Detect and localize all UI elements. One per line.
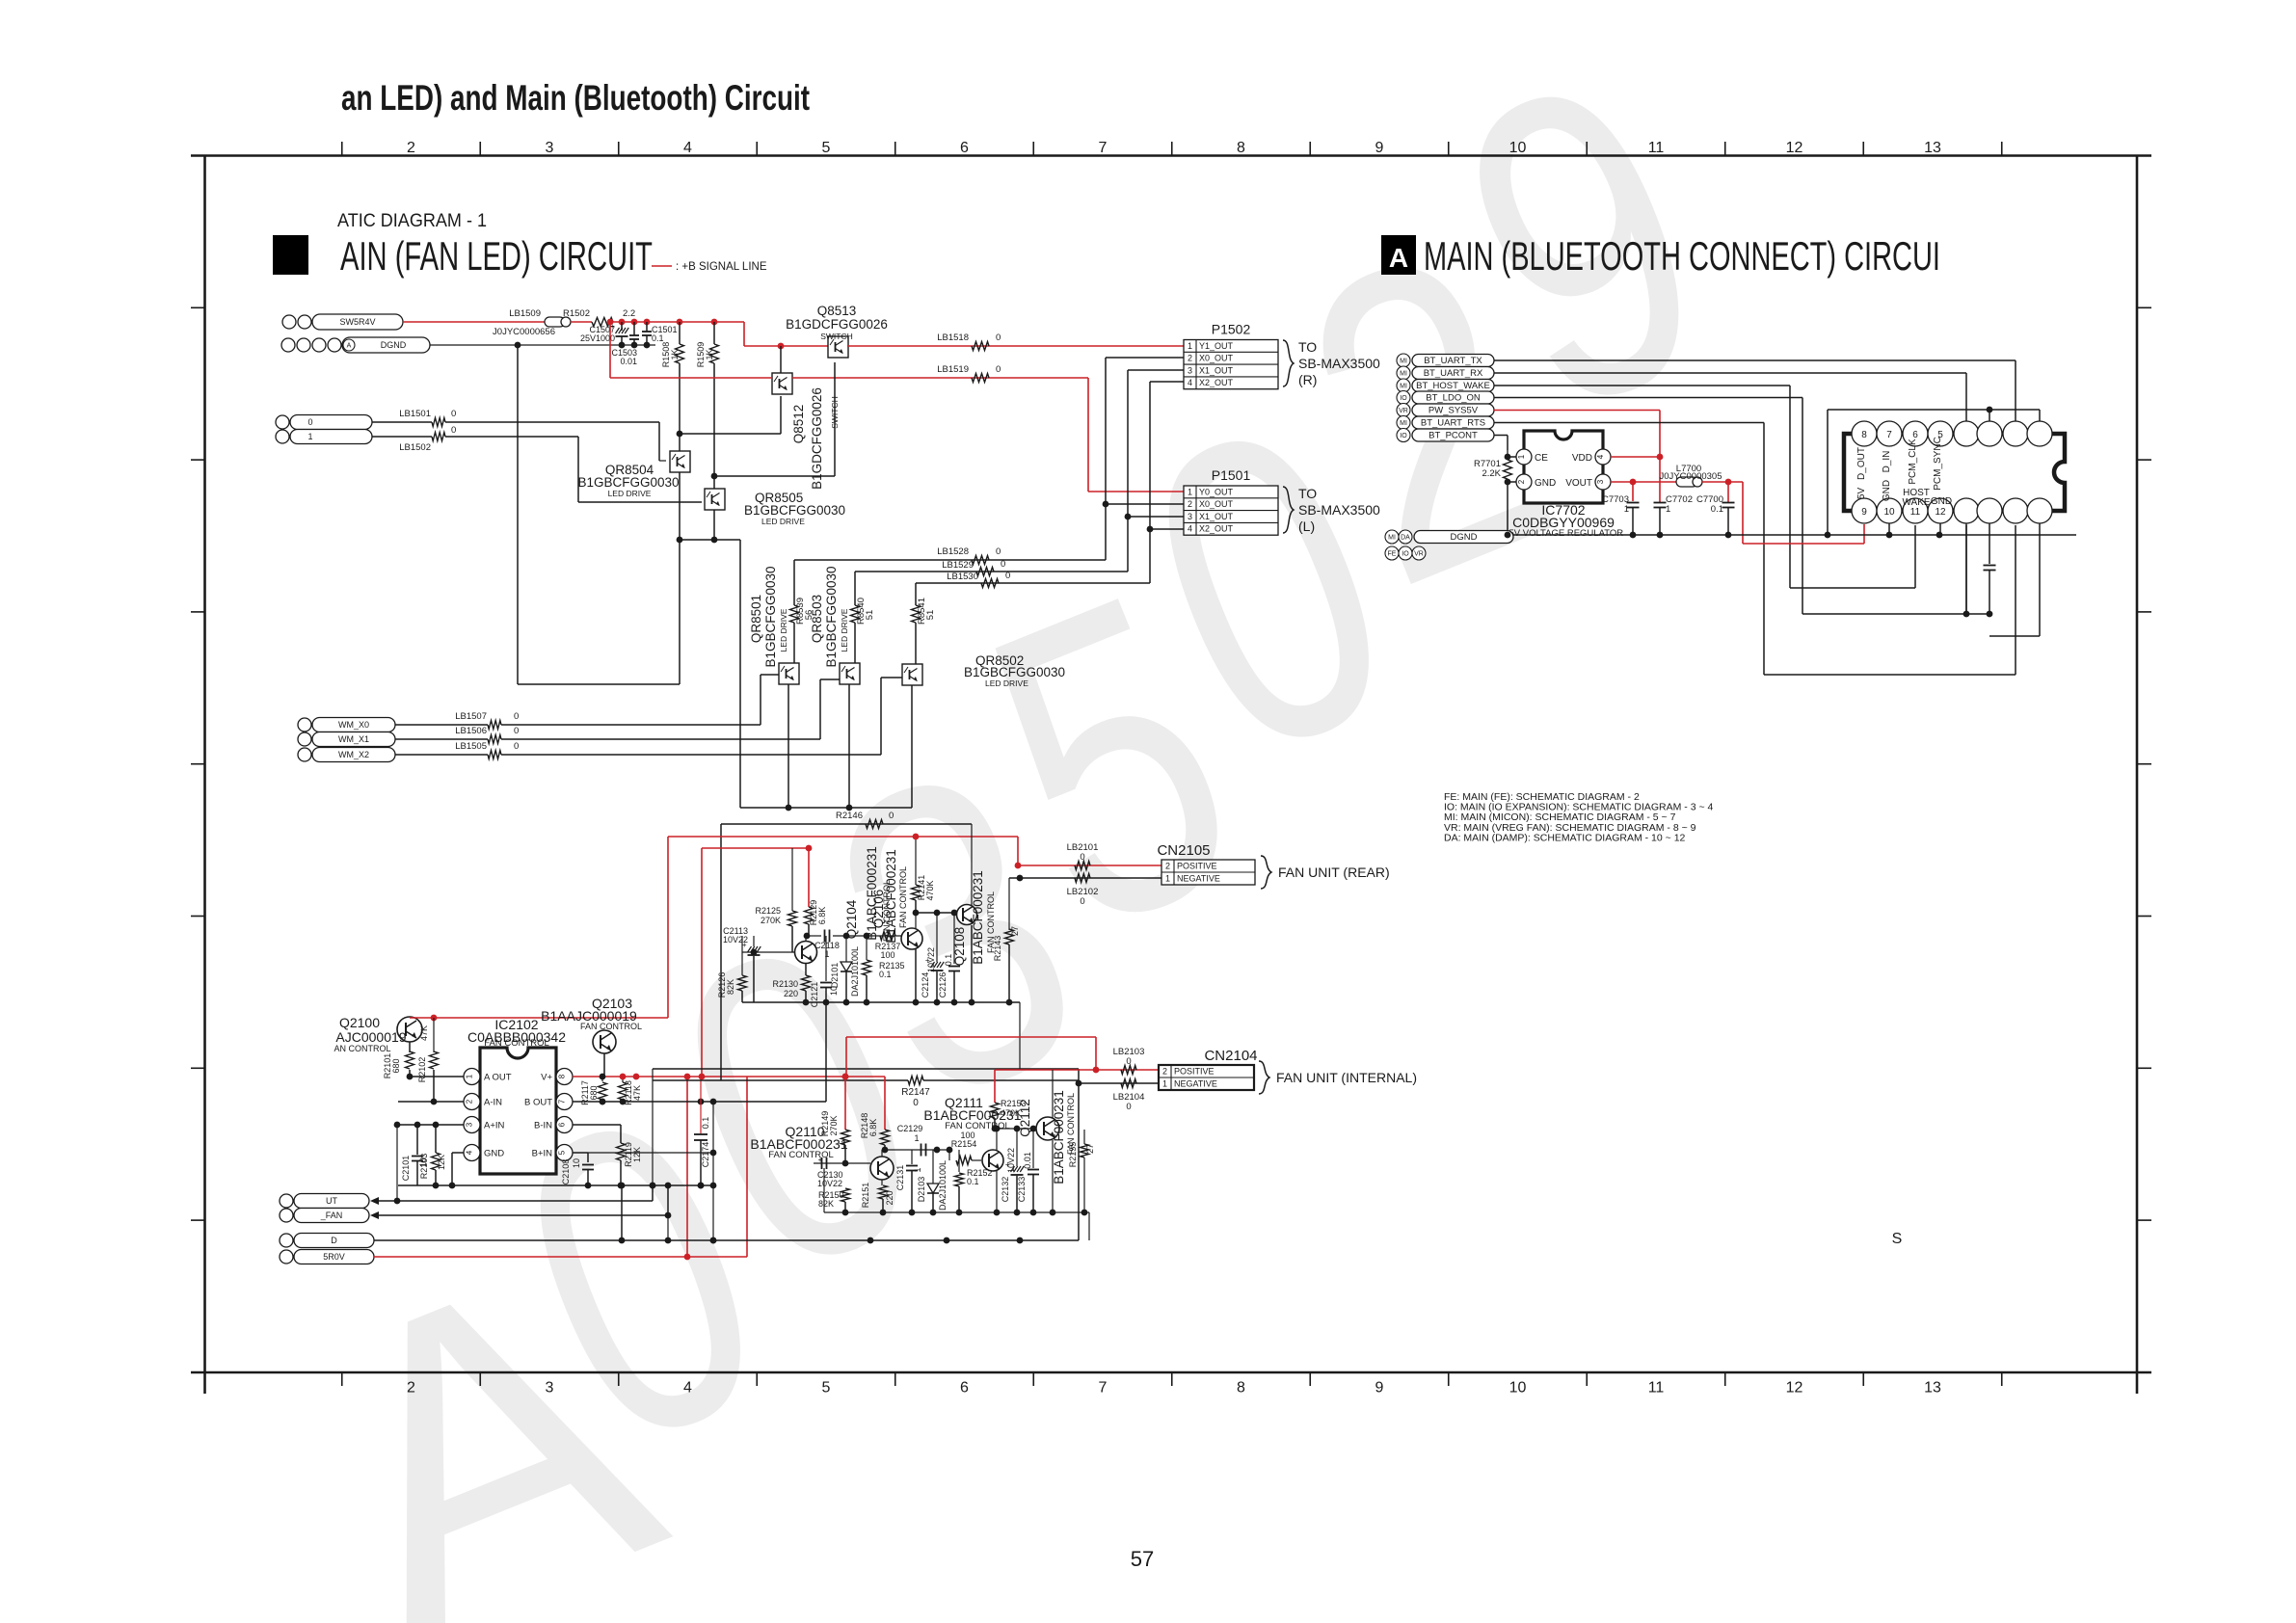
svg-text:Q2108: Q2108 [952,927,967,967]
transistor Q2110 fan control [870,1157,894,1180]
svg-text:57: 57 [1131,1547,1154,1571]
svg-text:1: 1 [307,432,312,441]
svg-text:R2155: R2155 [1068,1142,1078,1168]
wire QR8502 emitter riser [911,685,913,808]
svg-text:13: 13 [1924,1380,1941,1397]
resistor LB2103 0 [1121,1066,1136,1075]
resistor R2146 0 [866,820,883,829]
svg-text:12K: 12K [632,1147,642,1162]
svg-text:3: 3 [546,140,554,156]
svg-text:R2125: R2125 [755,906,781,916]
wire line 0 to QR8504 base [445,421,659,423]
capacitor C2133 0.01 [1032,1129,1034,1168]
svg-text:3: 3 [546,1380,554,1397]
svg-text:1K: 1K [705,349,714,359]
capacitor C2129 1 [921,1144,922,1157]
svg-text:C2174: C2174 [701,1142,710,1168]
svg-text:0: 0 [889,811,894,821]
connector pill D [280,1234,293,1247]
svg-text:C2101: C2101 [401,1156,411,1182]
transistor Q2103 fan control [593,1030,616,1053]
svg-text:3: 3 [1188,512,1192,521]
svg-text:1: 1 [1188,341,1192,351]
svg-text:2: 2 [1188,354,1192,363]
capacitor C1507 25V1000 [616,335,628,337]
red to CN2105 [1018,865,1161,866]
svg-text:10: 10 [1883,507,1895,518]
svg-text:A+IN: A+IN [484,1121,505,1131]
wire to Q2110 block [1019,1002,1021,1069]
transistor Q2111 fan control [982,1150,1003,1171]
svg-text:POSITIVE: POSITIVE [1177,862,1217,871]
red drop to 5R0V rail [686,1077,688,1257]
svg-text:WAKE: WAKE [1902,497,1930,508]
wire row LB1530 [916,582,1150,584]
svg-text:R2143: R2143 [993,936,1002,962]
svg-text:11: 11 [1648,140,1665,156]
svg-text:0: 0 [307,417,312,427]
svg-text:9: 9 [1861,507,1867,518]
svg-text:P1501: P1501 [1212,467,1251,483]
svg-text:4: 4 [1188,524,1192,534]
svg-text:MI: MI [1400,359,1407,365]
svg-text:2: 2 [466,1099,474,1104]
svg-text:AIN (FAN LED) CIRCUIT: AIN (FAN LED) CIRCUIT [340,233,653,279]
svg-text:X1_OUT: X1_OUT [1199,512,1234,521]
svg-text:0.1: 0.1 [879,970,892,979]
resistor R2150 82K [841,1188,850,1202]
svg-text:NEGATIVE: NEGATIVE [1177,874,1220,884]
wire CN2105 negative [1009,877,1161,879]
wire Q2111 collector [996,1129,998,1150]
capacitor C2121 10 [825,936,827,981]
svg-text:1: 1 [913,1167,922,1172]
svg-text:B1GDCFGG0026: B1GDCFGG0026 [786,317,888,332]
wire Q8512 output [780,396,782,434]
resistor LB1501 0 [372,421,432,423]
wire Q2106 collector [915,913,917,928]
wire Y0 red to P1501 [792,377,1088,379]
svg-text:GND: GND [484,1149,504,1159]
svg-text:1: 1 [1624,504,1629,515]
svg-text:B1GBCFGG0030: B1GBCFGG0030 [964,665,1065,679]
wires IC2102 left pins [410,1076,464,1078]
connector pill _FAN [280,1209,293,1222]
svg-text:6: 6 [558,1122,567,1127]
wire to QR8502 base [880,678,882,755]
red feed Q2110 block R2149 [844,1077,846,1130]
svg-text:FAN CONTROL: FAN CONTROL [484,1038,549,1049]
svg-text:VOUT: VOUT [1565,478,1592,489]
wire BT_UART_TX run [1494,359,2016,361]
wire Q2110 emitter resistor R2151 220 [881,1180,883,1185]
svg-text:SB-MAX3500: SB-MAX3500 [1298,502,1380,518]
svg-text:B1GBCFGG0030: B1GBCFGG0030 [824,566,839,667]
capacitor C1503 0.01 [629,334,639,336]
svg-text:270K: 270K [761,916,781,925]
svg-text:0: 0 [451,409,456,419]
svg-text:0.01: 0.01 [1023,1152,1032,1169]
resistor LB2101 0 [1075,862,1090,870]
transistor QR8505 LED drive [705,489,725,510]
svg-text:6: 6 [960,140,969,156]
resistor LB1529 0 [976,568,994,576]
wire QR8505 emitter [713,510,715,540]
svg-text:1: 1 [1165,874,1170,884]
wire Q2112 emitter [1052,1140,1054,1212]
capacitor C2130 10V22 [814,1162,870,1164]
wire Q2104 collector [805,936,807,942]
resistor LB1505 0 [395,754,488,756]
connector pill BT_LDO_ON [1397,391,1410,405]
svg-text:0: 0 [1005,571,1010,581]
svg-text:LED DRIVE: LED DRIVE [608,489,652,498]
red feed rail upper [668,836,1018,838]
transistor QR8502 LED drive [902,664,922,685]
svg-text:PW_SYS5V: PW_SYS5V [1428,406,1479,416]
wire B+IN row extension [588,1152,713,1154]
svg-text:DA: DA [1401,535,1410,542]
wire Q2110 collector [881,1150,883,1157]
svg-text:(L): (L) [1298,519,1315,534]
svg-text:MI: MI [1400,420,1407,427]
ferrite bead LB1509 [545,317,565,327]
wire 5R0V red rail [374,1256,747,1258]
svg-text:MI: MI [1400,371,1407,378]
svg-text:X0_OUT: X0_OUT [1199,354,1234,363]
inductor L7700 [1676,477,1697,487]
red feed R2148 [884,1077,886,1130]
svg-text:QR8501: QR8501 [749,595,763,643]
svg-text:Q2112: Q2112 [1018,1099,1032,1137]
svg-text:0.1: 0.1 [1711,504,1723,515]
svg-text:Y1_OUT: Y1_OUT [1199,341,1234,351]
connector pill BT_PCONT [1397,429,1410,442]
wire riser X2 [1149,382,1151,583]
svg-text:FAN CONTROL: FAN CONTROL [768,1150,834,1160]
resistor R2101 680 [409,1042,411,1052]
resistor R2141 470K [915,837,917,885]
resistor R2102 47K [433,1018,435,1052]
wire Q2103 emitter to V+ [603,1053,605,1077]
resistor R2152 0.1 [958,1150,960,1172]
transistor Q8512 switch [772,373,792,394]
svg-text:B-IN: B-IN [534,1121,552,1131]
svg-text:BT_UART_RTS: BT_UART_RTS [1421,418,1485,429]
resistor R7701 2.2K [1505,454,1511,461]
svg-text:12: 12 [1935,507,1946,518]
svg-text:R1502: R1502 [563,308,590,319]
wire BT_UART_RTS run [1494,422,1764,424]
svg-text:100: 100 [960,1131,974,1140]
svg-text:IO: IO [1400,433,1407,439]
svg-text:R2154: R2154 [951,1139,977,1149]
svg-text:0: 0 [996,333,1001,343]
svg-text:Y0_OUT: Y0_OUT [1199,487,1234,496]
svg-text:1: 1 [914,1133,919,1143]
svg-text:C2124: C2124 [921,972,930,998]
svg-text:270K: 270K [829,1115,839,1135]
wire Q2111 emitter [996,1171,998,1212]
svg-text:TO: TO [1298,486,1317,501]
svg-text:4: 4 [1596,454,1605,459]
svg-text:0.1: 0.1 [652,333,664,343]
svg-text:27: 27 [1010,926,1020,936]
wire BT_HOST_WAKE run [1494,385,1790,386]
svg-text:0: 0 [1126,1056,1131,1067]
svg-text:J0JYC0000305: J0JYC0000305 [1660,471,1722,482]
svg-text:0: 0 [1080,896,1084,907]
svg-text:B1ABCF000231: B1ABCF000231 [884,849,898,944]
resistor R2155 27 [1081,1144,1089,1157]
svg-text:6: 6 [960,1380,969,1397]
wire VOUT red [1611,481,1633,483]
resistor LB1507 0 [395,724,488,726]
wire +B bus [613,321,744,323]
svg-text:13: 13 [1924,140,1941,156]
capacitor C2174 0.1 [700,1077,702,1133]
wire DGND down-run [517,345,519,684]
capacitor C2108 10 [573,1152,588,1154]
svg-text:A OUT: A OUT [484,1073,512,1083]
svg-text:47K: 47K [632,1085,642,1101]
svg-text:IO: IO [1400,395,1407,402]
resistor LB1518 0 [972,342,989,351]
resistor R2117 680 [601,1077,603,1081]
feedback bus vertical [712,1102,714,1240]
wire DGND bus [1513,534,2076,536]
svg-text:C2129: C2129 [897,1124,923,1133]
svg-text:LB1505: LB1505 [455,741,487,752]
svg-text:2: 2 [1165,862,1170,871]
transistor QR8503 LED drive [840,663,860,684]
svg-text:FAN CONTROL: FAN CONTROL [945,1121,1010,1131]
svg-text:8: 8 [1237,140,1245,156]
svg-text:1: 1 [1162,1079,1167,1089]
svg-text:WM_X2: WM_X2 [338,750,369,759]
svg-text:MI: MI [1388,535,1396,542]
svg-text:5: 5 [558,1150,567,1155]
svg-text:0: 0 [1126,1102,1131,1112]
svg-text:LED DRIVE: LED DRIVE [779,608,788,652]
resistor R8540 51 [854,572,856,605]
svg-text:5V: 5V [1856,488,1867,500]
resistor R2130 220 [802,975,811,991]
svg-text:10: 10 [1509,140,1527,156]
svg-text:C2126: C2126 [938,972,948,998]
svg-text:X1_OUT: X1_OUT [1199,365,1234,375]
legend +B signal line [652,265,672,267]
svg-text:10: 10 [1509,1380,1527,1397]
svg-text:4: 4 [1188,378,1192,387]
svg-text:SWITCH: SWITCH [820,332,853,341]
wire fan block top rail [721,823,972,825]
fan block bottom rail [742,1001,1020,1003]
transistor Q2104 fan control [795,942,817,964]
capacitor C7702 1 [1659,500,1661,502]
wire Q8512 feed [780,346,782,373]
svg-text:5R0V: 5R0V [323,1252,345,1262]
red vertical from fan v+ to cn2104 net [845,1037,847,1077]
svg-text:1: 1 [1517,454,1526,459]
svg-text:0.1: 0.1 [967,1177,979,1186]
svg-text:2.2K: 2.2K [1482,468,1501,479]
svg-text:B1GBCFGG0030: B1GBCFGG0030 [577,475,679,490]
wire line 1 to QR8505 base [445,436,578,438]
wire Y1 red to P1502 [847,345,1184,347]
wire [571,321,592,323]
svg-text:12: 12 [1786,1380,1803,1397]
svg-text:A-IN: A-IN [484,1098,502,1108]
svg-text:220: 220 [885,1190,894,1205]
connector pill WM_X2 [298,748,311,761]
svg-text:D2101: D2101 [830,963,840,989]
svg-text:3: 3 [1596,479,1605,484]
connector pill 0 [276,415,289,429]
connector pill BT_UART_RTS [1397,416,1410,430]
black box marker A [1381,235,1416,275]
transistor Q2112 fan control [1036,1117,1059,1140]
gnd rail under IC2102 [398,1184,713,1186]
svg-text:FE: FE [1388,551,1397,558]
black square marker [273,235,308,275]
red junction R2147 area [842,1074,849,1080]
wire Q8513 collector run [834,362,836,476]
red V+ to Q2104 block [748,1076,885,1078]
resistor R1509 1K [713,322,715,344]
svg-text:C2133: C2133 [1017,1177,1027,1203]
svg-text:0: 0 [1080,852,1084,863]
svg-text:0: 0 [514,741,519,752]
svg-text:ATIC DIAGRAM - 1: ATIC DIAGRAM - 1 [337,211,487,231]
svg-text:5: 5 [822,140,831,156]
svg-text:Q8513: Q8513 [817,304,857,318]
resistor R8539 56 [793,560,795,605]
svg-text:8: 8 [558,1074,567,1078]
svg-text:R2147: R2147 [901,1087,930,1098]
svg-text:10V22: 10V22 [817,1179,842,1188]
svg-text:AJC000019: AJC000019 [335,1029,406,1045]
capacitor C2131 1 [911,1150,913,1164]
connector pill BT_UART_TX [1397,354,1410,367]
svg-text:LED DRIVE: LED DRIVE [985,678,1028,688]
svg-text:2: 2 [407,140,415,156]
resistor R2103 12K [435,1125,437,1153]
connector pill DGND [281,338,295,352]
wire B OUT row [573,1101,826,1103]
svg-text:1: 1 [1188,487,1192,496]
svg-text:0: 0 [996,364,1001,375]
svg-text:51: 51 [865,610,875,621]
svg-text:0.01: 0.01 [620,357,637,366]
svg-text:P1502: P1502 [1212,322,1251,337]
svg-text:WM_X1: WM_X1 [338,734,369,744]
connector pill WM_X1 [298,732,311,746]
svg-text:+: + [818,1156,823,1164]
wire to QR8503 base [819,679,821,739]
svg-text:10V22: 10V22 [1006,1148,1016,1173]
connector pill SW5R4V [282,315,296,329]
svg-text:6.8K: 6.8K [817,907,827,925]
svg-text:0: 0 [1001,559,1005,570]
svg-text:VR: VR [1399,408,1408,414]
svg-text:3: 3 [466,1122,474,1127]
svg-text:2: 2 [1517,479,1526,484]
svg-text:BT_PCONT: BT_PCONT [1428,431,1478,441]
svg-text:: +B SIGNAL LINE: : +B SIGNAL LINE [676,261,767,273]
resistor LB1528 0 [972,556,989,565]
svg-text:FAN CONTROL: FAN CONTROL [898,866,908,928]
svg-text:NEGATIVE: NEGATIVE [1174,1079,1217,1089]
IC2102 fan control [480,1048,556,1174]
wire VDD red [1611,456,1660,458]
red net to CN2104 [846,1036,1096,1038]
wire BT_UART_RX run [1494,372,1966,374]
wires to P1501 [1106,503,1184,505]
svg-text:B1GBCFGG0030: B1GBCFGG0030 [763,566,778,667]
svg-text:R2151: R2151 [861,1183,870,1209]
resistor R2154 100 [948,1150,950,1160]
transistor Q2100 fan control [397,1017,422,1042]
svg-text:1: 1 [1666,504,1670,515]
wire +B to Q8513 [743,322,745,346]
wire Q2112 base rail [995,1128,1036,1130]
wires to P1502 [1106,357,1184,359]
svg-text:2: 2 [1162,1067,1167,1077]
svg-text:47K: 47K [419,1025,429,1041]
svg-text:C2108: C2108 [561,1159,571,1185]
resistor R8541 51 [915,583,917,605]
svg-text:S: S [1892,1231,1903,1247]
resistor LB1530 0 [981,579,999,588]
svg-text:6: 6 [1912,430,1918,440]
svg-text:B1GBCFGG0030: B1GBCFGG0030 [744,503,845,518]
svg-text:an LED) and Main (Bluetooth) C: an LED) and Main (Bluetooth) Circuit [341,78,810,118]
connector pill 1 [276,430,289,443]
svg-text:LB1509: LB1509 [509,308,541,319]
svg-text:10V22: 10V22 [926,947,936,972]
svg-text:D_OUT: D_OUT [1856,447,1867,480]
svg-text:POSITIVE: POSITIVE [1174,1067,1215,1077]
border frame with grid ruler [191,154,2151,157]
wire Q2104 base node [742,951,795,953]
resistor R2129 6.8K [805,907,814,924]
transistor Q2106 fan control [901,928,922,949]
svg-text:X2_OUT: X2_OUT [1199,524,1234,534]
capacitor C2101 10 [416,1125,418,1155]
svg-text:220: 220 [784,989,798,998]
red run to module 5V pin [1742,482,1744,544]
wire LED cathode bus [740,807,912,809]
resistor R2137 100 [880,932,895,941]
transistor QR8504 LED drive [670,451,690,472]
connector pill BT_HOST_WAKE [1397,379,1410,392]
svg-text:8: 8 [1237,1380,1245,1397]
svg-text:4: 4 [683,1380,692,1397]
resistor R2135 0.1 [866,936,868,960]
wire BT_LDO_ON run [1494,397,1802,399]
wire UT [379,1200,653,1202]
resistor R2119 12K [573,1124,621,1126]
svg-text:FAN UNIT (INTERNAL): FAN UNIT (INTERNAL) [1276,1070,1417,1085]
svg-text:LB1506: LB1506 [455,726,487,736]
svg-text:0: 0 [913,1098,919,1108]
svg-text:27: 27 [1085,1144,1095,1154]
wire BT_PCONT run [1494,435,1508,437]
svg-text:0: 0 [996,546,1001,557]
svg-text:LB1529: LB1529 [942,560,974,571]
svg-text:4: 4 [466,1150,474,1155]
